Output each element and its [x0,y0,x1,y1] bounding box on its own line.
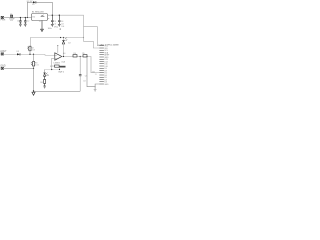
fuse F1 on wire A [11,15,13,17]
capacitor C2 [24,18,29,25]
svg-text:D3: D3 [17,51,19,53]
terminal X3 (bottom left) [1,67,4,69]
wire B [48,14,63,16]
svg-text:104: 104 [83,80,86,82]
LDR R2 [28,46,35,51]
svg-text:D4: D4 [47,75,49,77]
capacitor C3 [51,15,56,25]
LDR divider upper wire (light) [29,38,31,47]
svg-text:C2: C2 [27,21,29,23]
resistor R3 vertical [31,54,39,66]
relay bottom pin [41,21,43,30]
svg-text:GL55: GL55 [35,65,39,67]
wire from X2 to opamp [4,54,55,55]
svg-text:CON1 10 PIN 2.54MM: CON1 10 PIN 2.54MM [98,45,118,47]
svg-text:104: 104 [61,26,64,28]
ground under R6 [43,86,46,88]
ground under C1 [19,24,22,26]
wire X3 to node [4,67,34,69]
ground symbol bottom right [94,90,97,92]
svg-text:15: 15 [39,21,41,23]
capacitor C5 to ground [79,57,87,92]
svg-text:R5: R5 [82,53,84,55]
svg-text:M7: M7 [32,4,34,6]
capacitor C4 [58,15,64,25]
op-amp V+ pin stub [57,46,59,53]
relay contact marks inside [41,15,45,16]
wire A [4,17,32,19]
small node mark [60,29,61,30]
svg-text:OUT1: OUT1 [58,72,64,74]
transistor Q1 [43,70,49,80]
svg-text:C1: C1 [17,21,19,23]
ground flag under relay [41,29,44,31]
ground under C2 [24,24,27,26]
svg-text:104: 104 [53,23,56,25]
relay right lower pin stub [48,17,50,19]
flyback diode D1 over relay [27,1,52,17]
svg-text:R6: R6 [40,82,42,84]
op-amp U1 [55,53,62,60]
svg-text:A0: A0 [63,52,65,55]
svg-text:LM393: LM393 [54,62,61,64]
svg-text:5528: 5528 [31,49,35,51]
svg-text:R4: R4 [74,53,76,55]
light wire from relay to right (VCC net) [30,15,99,48]
opamp output wire [62,57,100,73]
svg-text:GND: GND [0,65,5,67]
capacitor C1 [17,18,22,25]
terminal X2 (middle left) [1,53,4,55]
svg-text:R2: R2 [31,47,33,49]
wire pot to transistor base rail [45,67,60,69]
svg-text:050: 050 [10,20,13,22]
svg-text:AOUT: AOUT [0,50,7,53]
connector J1 pins [99,46,104,84]
connector pin name texts [104,46,110,86]
resistor R6 vertical [40,80,45,87]
svg-text:R7: R7 [50,66,52,68]
terminal X1 (top left input) [1,16,4,18]
ground rail [34,90,81,92]
resistor R5 on output [82,53,87,57]
LED D2 on rail to opamp output [62,38,71,57]
svg-text:GND: GND [104,84,109,86]
node junction on wire A [20,17,21,18]
wire from R5 node down to gnd junction [87,57,95,87]
opamp minus input wire [52,58,55,69]
svg-text:100n: 100n [48,28,52,30]
wire from pin 18 to gnd [95,84,99,90]
svg-text:104: 104 [61,23,64,25]
svg-text:R3: R3 [35,63,37,65]
svg-text:K1 SRD-05V: K1 SRD-05V [32,11,45,13]
trimpot RV1 [50,65,66,74]
ground under C3 [51,24,54,26]
svg-text:PWR: PWR [1,19,6,21]
resistor R4 on output [73,53,77,57]
svg-text:VCC: VCC [54,26,59,28]
diode D3 on wire [17,51,20,56]
svg-text:D2: D2 [68,43,70,45]
svg-text:13: 13 [95,74,97,76]
ground under C4 [58,24,61,26]
ground symbol on rail [32,91,35,95]
relay K1 box [32,14,48,21]
svg-text:D1 M7: D1 M7 [27,1,33,3]
